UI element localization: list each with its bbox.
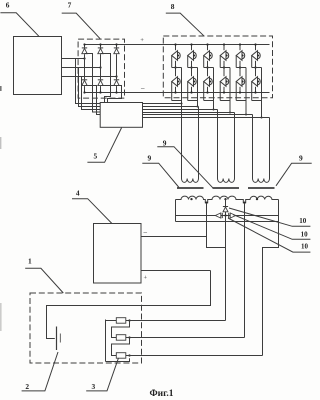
wire: leg 6 control hook bbox=[252, 100, 262, 102]
svg-text:7: 7 bbox=[68, 1, 72, 10]
diode 10 VD8 (left, on row line) bbox=[215, 213, 221, 218]
svg-text:10: 10 bbox=[301, 230, 309, 238]
node: column 1 bottom rail junction bbox=[83, 91, 85, 93]
block 4 (charge regulator) bbox=[94, 224, 142, 284]
battery 2 (cell plates) bbox=[56, 327, 58, 351]
wire: rectifier row line bbox=[176, 215, 279, 217]
node: R1 tap bbox=[128, 319, 130, 321]
wire: secondary right end down bbox=[278, 200, 280, 222]
node: secondary dot 2 bbox=[224, 198, 226, 200]
node: leg 4 + rail junction bbox=[223, 43, 225, 45]
wire: phase C sense to unit 5 bbox=[82, 77, 101, 110]
transistor VT9 (lower switch leg 3) with antiparallel diode bbox=[203, 76, 213, 87]
scan artifact marks bbox=[0, 86, 2, 91]
block 6 (three-phase source) bbox=[14, 37, 62, 95]
node: phase A junction bbox=[83, 57, 85, 59]
wire: leg 2 control hook bbox=[188, 100, 198, 102]
wire: inverter leg 2 bbox=[191, 45, 193, 93]
leader line to box 7 bbox=[62, 13, 100, 39]
wire: bridge control line 3 to unit 5 bbox=[101, 54, 111, 103]
transistor VT8 (lower switch leg 2) with antiparallel diode bbox=[187, 76, 197, 87]
wire: VT2 control lead bbox=[187, 56, 189, 68]
secondary winding of transformer (scalloped line) bbox=[176, 196, 279, 203]
transistor VT4 (upper switch leg 4) with antiparallel diode bbox=[220, 50, 230, 61]
svg-text:Фиг.1: Фиг.1 bbox=[150, 389, 174, 399]
wire: R2 tap line to tap2 bbox=[126, 337, 245, 339]
wire: bus line 1 from unit 5 bbox=[143, 103, 182, 105]
wire: inverter leg 3 bbox=[207, 45, 209, 93]
node: R3 tap bbox=[128, 354, 130, 356]
node: leg 1 - rail junction bbox=[174, 91, 176, 93]
wire: VT1 control lead bbox=[171, 56, 173, 68]
wire: block 4 minus output bbox=[141, 236, 207, 238]
wire: drop 5 to winding bbox=[252, 115, 254, 179]
svg-text:10: 10 bbox=[299, 217, 307, 225]
transistor VT7 (lower switch leg 1) with antiparallel diode bbox=[171, 76, 181, 87]
wire: leg 2 midpoint horizontal bbox=[188, 67, 198, 69]
wire: leg 3 midpoint horizontal bbox=[204, 67, 214, 69]
transistor VT2 (upper switch leg 2) with antiparallel diode bbox=[187, 50, 197, 61]
transistor VT12 (lower switch leg 6) with antiparallel diode bbox=[251, 76, 261, 87]
wire: bridge control line 1 to unit 5 bbox=[85, 54, 101, 113]
svg-text:1: 1 bbox=[28, 256, 32, 265]
wire: VT8 control lead bbox=[187, 82, 189, 101]
leader line 10 middle bbox=[233, 215, 310, 240]
transistor VT3 (upper switch leg 3) with antiparallel diode bbox=[203, 50, 213, 61]
node: leg 4 tap on bus line 4 bbox=[229, 112, 231, 114]
wire: VT3 control lead bbox=[203, 56, 205, 68]
node: secondary dot 1 bbox=[190, 198, 192, 200]
wire: VT5 control lead bbox=[235, 56, 237, 68]
transformer core 1 bbox=[177, 187, 204, 189]
leader line 10 upper bbox=[229, 208, 310, 226]
wire: leg 1 control hook bbox=[172, 100, 182, 102]
winding 9 coil L1 (primary) bbox=[181, 179, 198, 183]
wire: VT7 control lead bbox=[171, 82, 173, 101]
node: leg 5 midpoint bbox=[239, 66, 241, 68]
node: leg 6 midpoint bbox=[254, 66, 256, 68]
wire: leg 5 output tap down bbox=[245, 68, 247, 115]
wire: - DC rail (bottom) bbox=[85, 92, 270, 94]
leader line to box 8 bbox=[166, 13, 204, 36]
block 5 (control unit) bbox=[100, 103, 142, 128]
wire: R2 to R3 link bbox=[112, 338, 130, 356]
node: leg 5 tap on bus line 5 bbox=[245, 114, 247, 116]
resistor R3 bbox=[116, 353, 126, 359]
node: secondary dot 3 bbox=[256, 198, 258, 200]
diode VD1 (upper arm, column 1) bbox=[81, 47, 87, 54]
node: leg 1 midpoint bbox=[174, 66, 176, 68]
wire: leg 6 midpoint horizontal bbox=[252, 67, 262, 69]
wire: bus line 4 from unit 5 bbox=[143, 112, 235, 114]
wire: leg 5 control hook bbox=[236, 100, 246, 102]
leader line to block 6 bbox=[0, 13, 39, 37]
dashed box 7 (controlled rectifier) bbox=[78, 39, 124, 98]
diode 10 VD9 (right, on row line) bbox=[228, 213, 230, 218]
svg-text:2: 2 bbox=[25, 382, 29, 391]
svg-text:5: 5 bbox=[94, 152, 98, 161]
wire: drop 2 to winding bbox=[198, 107, 200, 179]
wire: bridge control line 2 to unit 5 bbox=[85, 86, 101, 115]
wire: leg 4 output tap down bbox=[229, 68, 231, 113]
leader line to winding 9 right bbox=[276, 163, 312, 186]
wire: phase B sense to unit 5 bbox=[79, 68, 101, 107]
node: leg 3 tap on bus line 3 bbox=[213, 109, 215, 111]
wire phase A from block 6 bbox=[62, 58, 85, 60]
node: leg 6 + rail junction bbox=[254, 43, 256, 45]
wire: VT10 control lead bbox=[219, 82, 221, 101]
svg-text:6: 6 bbox=[6, 1, 10, 10]
wire: bus line 5 from unit 5 bbox=[143, 114, 253, 116]
diode VD3 (upper arm, column 3) bbox=[113, 47, 119, 54]
node: column 2 top rail junction bbox=[99, 43, 101, 45]
wire: drop 6 to winding bbox=[269, 118, 271, 179]
wire: bridge column 3 bbox=[116, 45, 118, 93]
wire: secondary left end down bbox=[175, 200, 177, 222]
node: leg 6 - rail junction bbox=[254, 91, 256, 93]
wire: VT11 control lead bbox=[235, 82, 237, 101]
svg-text:–: – bbox=[143, 229, 148, 237]
node: leg 5 + rail junction bbox=[239, 43, 241, 45]
wire: leg 4 midpoint horizontal bbox=[220, 67, 230, 69]
wire: R1 tap line to center output bbox=[130, 320, 226, 322]
wire: R1 input bbox=[106, 320, 117, 322]
wire: VT9 control lead bbox=[203, 82, 205, 101]
node: column 3 bottom rail junction bbox=[115, 91, 117, 93]
wire phase C from block 6 bbox=[62, 76, 117, 78]
wire: center output down to R1 line bbox=[225, 216, 227, 321]
wire: resistor chain left bus bbox=[105, 320, 107, 362]
wire: bridge column 2 bbox=[100, 45, 102, 93]
node: leg 4 - rail junction bbox=[223, 91, 225, 93]
wire: inverter leg 6 bbox=[255, 45, 257, 93]
node: leg 1 tap on bus line 1 bbox=[181, 103, 183, 105]
svg-text:+: + bbox=[144, 275, 148, 282]
wire: VT12 control lead bbox=[251, 82, 253, 101]
diode VD4 (lower arm, column 1) bbox=[81, 79, 87, 86]
node: rectifier center junction bbox=[224, 214, 226, 216]
dashed box 1 (battery unit) bbox=[30, 293, 142, 363]
svg-text:8: 8 bbox=[171, 2, 175, 11]
wire: tap2 down to R2 line bbox=[244, 203, 246, 338]
svg-text:9: 9 bbox=[299, 153, 303, 162]
wire: phase A sense to unit 5 bbox=[76, 59, 101, 104]
diode VD6 (lower arm, column 3) bbox=[113, 79, 119, 86]
wire: drop 1 to winding bbox=[181, 104, 183, 179]
svg-text:–: – bbox=[140, 84, 145, 92]
leader line to block 5 bbox=[87, 128, 121, 163]
transformer core 3 bbox=[248, 187, 275, 189]
wire: tap1 down and jog right bbox=[207, 203, 226, 248]
wire: bridge column 1 bbox=[84, 45, 86, 93]
node: secondary tap 2 bbox=[243, 202, 245, 204]
node: phase B junction bbox=[99, 66, 101, 68]
wire: drop 3 to winding bbox=[217, 110, 219, 179]
node: phase C junction bbox=[115, 75, 117, 77]
node: column 3 top rail junction bbox=[115, 43, 117, 45]
leader line to resistors 3 bbox=[86, 358, 118, 391]
transformer core 2 bbox=[213, 187, 240, 189]
svg-text:3: 3 bbox=[92, 382, 96, 391]
leader line to block 4 bbox=[72, 199, 112, 224]
winding 9 coil L2 (primary) bbox=[217, 179, 234, 183]
wire: bus line 3 from unit 5 bbox=[143, 109, 218, 111]
wire: + DC rail (top) bbox=[85, 44, 270, 46]
wire: R3 tap line to right drop bbox=[126, 355, 263, 357]
node: leg 2 tap on bus line 2 bbox=[197, 106, 199, 108]
leader line to winding 9 middle bbox=[157, 147, 212, 188]
wire: leg 3 output tap down bbox=[213, 68, 215, 110]
wire: inverter leg 5 bbox=[239, 45, 241, 93]
wire: leg 5 midpoint horizontal bbox=[236, 67, 246, 69]
wire: block 4 plus output bbox=[141, 270, 211, 272]
svg-text:9: 9 bbox=[163, 138, 167, 147]
winding 9 coil L3 (primary) bbox=[252, 179, 269, 183]
node: leg 4 midpoint bbox=[223, 66, 225, 68]
wire: plus line to battery 2 bbox=[47, 271, 211, 339]
wire: leg 4 control hook bbox=[220, 100, 230, 102]
diode VD2 (upper arm, column 2) bbox=[97, 47, 103, 54]
node: leg 6 tap on bus line 6 bbox=[261, 117, 263, 119]
wire: leg 1 output tap down bbox=[181, 68, 183, 104]
transistor VT1 (upper switch leg 1) with antiparallel diode bbox=[171, 50, 181, 61]
wire: lower return line bbox=[176, 221, 279, 223]
wire: bridge control line 4 to unit 5 bbox=[101, 86, 122, 103]
wire: bus line 2 from unit 5 bbox=[143, 106, 199, 108]
node: column 1 top rail junction bbox=[83, 43, 85, 45]
resistor R1 bbox=[116, 318, 126, 324]
wire phase B from block 6 bbox=[62, 67, 101, 69]
wire: R1 output bbox=[126, 320, 130, 322]
wire: inverter leg 1 bbox=[175, 45, 177, 93]
svg-text:+: + bbox=[140, 37, 144, 44]
node: leg 5 - rail junction bbox=[239, 91, 241, 93]
node: leg 2 midpoint bbox=[190, 66, 192, 68]
node: leg 3 + rail junction bbox=[206, 43, 208, 45]
node: R2 tap bbox=[128, 336, 130, 338]
leader line to battery 2 bbox=[22, 352, 58, 391]
wire: R1 to R2 link bbox=[112, 321, 130, 338]
svg-text:10: 10 bbox=[301, 243, 309, 251]
leader line to winding 9 left bbox=[142, 163, 179, 187]
wire: bus line 6 from unit 5 bbox=[143, 117, 270, 119]
leader line to box 1 bbox=[25, 268, 63, 293]
leader line 10 lower bbox=[228, 218, 310, 252]
wire: leg 3 control hook bbox=[204, 100, 214, 102]
node: leg 2 + rail junction bbox=[190, 43, 192, 45]
transistor VT6 (upper switch leg 6) with antiparallel diode bbox=[251, 50, 261, 61]
transistor VT10 (lower switch leg 4) with antiparallel diode bbox=[220, 76, 230, 87]
wire: VT6 control lead bbox=[251, 56, 253, 68]
transistor VT11 (lower switch leg 5) with antiparallel diode bbox=[236, 76, 246, 87]
node: leg 3 midpoint bbox=[206, 66, 208, 68]
wire: right end down to R3 line bbox=[263, 222, 279, 356]
wire: leg 2 output tap down bbox=[197, 68, 199, 107]
resistor R2 bbox=[116, 335, 126, 341]
node: leg 3 - rail junction bbox=[206, 91, 208, 93]
wire: leg 1 midpoint horizontal bbox=[172, 67, 182, 69]
node: leg 2 - rail junction bbox=[190, 91, 192, 93]
wire: drop 4 to winding bbox=[234, 113, 236, 179]
transistor VT5 (upper switch leg 5) with antiparallel diode bbox=[236, 50, 246, 61]
node: column 2 bottom rail junction bbox=[99, 91, 101, 93]
wire: inverter leg 4 bbox=[223, 45, 225, 93]
node: secondary tap 1 bbox=[205, 202, 207, 204]
dashed box 8 (inverter) bbox=[163, 36, 272, 98]
wire: leg 6 output tap down bbox=[261, 68, 263, 118]
diode VD5 (lower arm, column 2) bbox=[97, 79, 103, 86]
svg-text:9: 9 bbox=[148, 153, 152, 162]
svg-text:4: 4 bbox=[76, 189, 80, 198]
node: leg 1 + rail junction bbox=[174, 43, 176, 45]
wire: chain bottom return bbox=[106, 358, 130, 361]
diode 10 VD7 (center tap, vertical) bbox=[225, 200, 227, 207]
wire: VT4 control lead bbox=[219, 56, 221, 68]
